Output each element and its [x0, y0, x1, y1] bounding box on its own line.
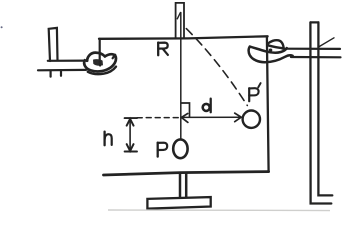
d arrow line — [182, 116, 242, 118]
prime mark — [258, 83, 260, 87]
label P prime — [249, 88, 258, 101]
board top edge — [99, 36, 268, 39]
left clamp screw tick 1 — [49, 71, 51, 76]
bottom stand stem — [180, 173, 186, 197]
faint scan line at bottom — [108, 209, 330, 212]
right boss clamp lower jaw — [249, 47, 293, 63]
string (plumb line) — [180, 13, 182, 140]
h arrow top head — [127, 119, 134, 126]
ball P' — [243, 111, 260, 128]
right clamp bolt — [269, 49, 273, 52]
board bottom edge — [104, 172, 269, 175]
right boss clamp beak — [267, 40, 283, 48]
right stand rod outer line and foot — [310, 22, 331, 203]
label d — [203, 99, 211, 113]
rod R at top — [176, 3, 184, 39]
h arrow bottom head — [127, 144, 134, 151]
bottom stand base — [147, 197, 210, 209]
h arrow top bar — [125, 117, 137, 119]
board left edge (short) — [99, 39, 101, 62]
left stand horizontal rod top line — [48, 59, 88, 61]
left stand horizontal rod bottom line — [38, 69, 86, 72]
dashed level line — [137, 117, 180, 119]
label h — [105, 132, 112, 146]
d arrow right head — [235, 113, 242, 122]
diagonal dashed trajectory line — [186, 29, 247, 106]
clamp handle diagonal — [319, 38, 335, 47]
left clamp screw tick 2 — [60, 71, 62, 75]
left stand rod — [49, 28, 58, 61]
d arrow left head — [181, 114, 188, 123]
board edge inside clamp — [99, 62, 102, 66]
left boss clamp hook — [84, 53, 116, 75]
right stand rod — [311, 21, 319, 23]
scan speck — [1, 26, 3, 28]
string knot — [177, 13, 180, 19]
h arrow shaft — [129, 119, 131, 152]
right horizontal rod bottom line — [291, 56, 341, 58]
right-angle mark — [182, 103, 190, 117]
right stand rod inner line and foot — [318, 22, 332, 195]
board right edge — [267, 37, 269, 172]
label R — [158, 43, 168, 56]
h arrow bottom bar — [125, 151, 137, 153]
ball P — [173, 139, 187, 158]
label P — [158, 143, 168, 157]
left clamp inner jaw (dark) — [93, 59, 103, 66]
right horizontal rod top line — [283, 48, 341, 50]
